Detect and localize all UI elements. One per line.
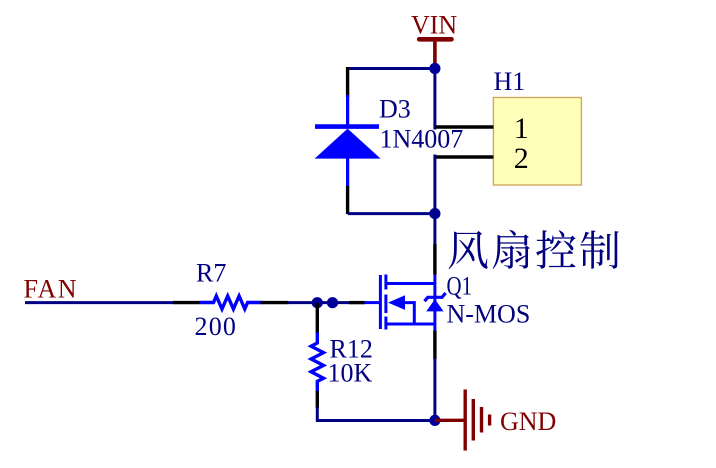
pin H1.1 xyxy=(435,125,494,129)
pin Q1 gate (black) xyxy=(349,301,365,304)
svg-text:200: 200 xyxy=(195,312,238,341)
power port VIN xyxy=(411,11,457,67)
pin D3 anode (black) xyxy=(346,186,349,214)
svg-text:GND: GND xyxy=(500,407,556,436)
svg-text:R7: R7 xyxy=(196,259,226,288)
svg-text:1: 1 xyxy=(514,112,529,145)
svg-text:1N4007: 1N4007 xyxy=(380,125,464,154)
resistor R7 xyxy=(200,296,262,309)
svg-text:VIN: VIN xyxy=(411,11,457,40)
diode D3 xyxy=(315,95,381,187)
svg-text:FAN: FAN xyxy=(24,275,79,304)
wire VIN rail top xyxy=(346,69,435,130)
net label 风扇控制 xyxy=(449,230,619,269)
wire R12 to ground rail xyxy=(317,407,435,421)
wire trunk below pin 2 xyxy=(433,155,436,214)
junction VIN node xyxy=(429,63,440,74)
pin R7 left (black) xyxy=(173,301,201,304)
svg-text:D3: D3 xyxy=(379,95,411,124)
svg-text:10K: 10K xyxy=(328,359,373,388)
junction mid node xyxy=(429,208,440,219)
wire R7 to gate node xyxy=(288,301,351,304)
ground GND xyxy=(435,390,490,451)
transistor Q1 N-MOS xyxy=(363,275,445,332)
pin Q1 drain (black) xyxy=(433,244,436,275)
connector H1 body xyxy=(493,98,581,186)
resistor R12 xyxy=(311,333,323,393)
wire FAN to R7 xyxy=(25,301,174,304)
wire D3 anode to trunk xyxy=(348,212,435,215)
pin H1.2 xyxy=(435,155,494,159)
svg-text:N-MOS: N-MOS xyxy=(447,300,531,329)
pin Q1 source (black) xyxy=(433,331,436,360)
junction gate node B xyxy=(327,297,338,308)
pin R7 right (black) xyxy=(261,301,289,304)
svg-text:H1: H1 xyxy=(494,67,526,96)
pin R12 bottom (black) xyxy=(316,391,319,408)
junction ground node xyxy=(429,415,440,426)
junction gate node A xyxy=(312,297,323,308)
wire trunk to Q1 drain xyxy=(433,214,436,245)
pin D3 cathode (black) xyxy=(346,67,349,97)
svg-text:2: 2 xyxy=(514,142,529,175)
svg-text:Q1: Q1 xyxy=(447,272,473,301)
wire Q1 source to ground node xyxy=(433,358,436,421)
pin R12 top (black) xyxy=(316,303,319,334)
